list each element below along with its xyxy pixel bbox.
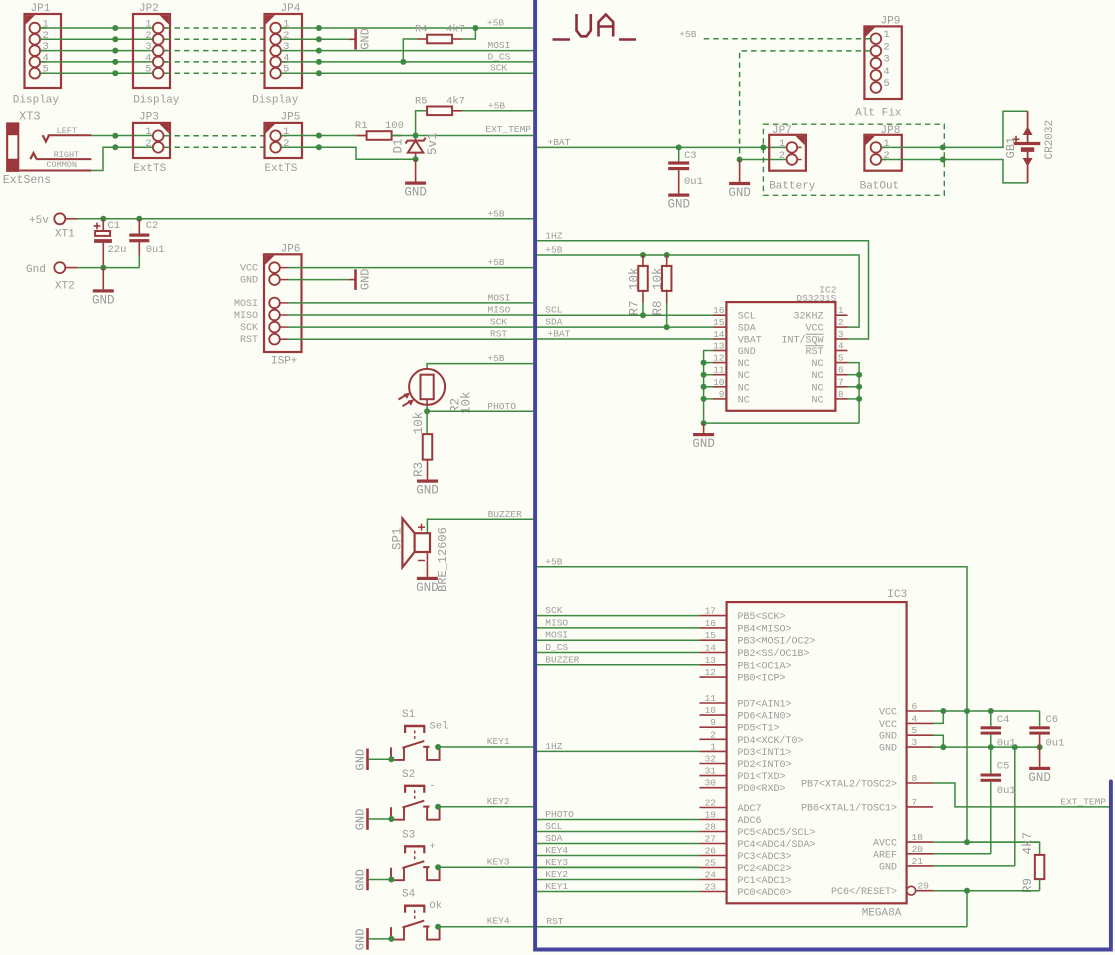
svg-text:2: 2 [883, 41, 889, 53]
svg-text:9: 9 [710, 717, 716, 728]
svg-text:1HZ: 1HZ [545, 741, 562, 752]
svg-text:MOSI: MOSI [545, 630, 568, 641]
svg-text:IC3: IC3 [887, 589, 907, 601]
wire net PHOTO (to bus) [427, 410, 533, 412]
wire XT3 COMMON to JP3 pin2 [91, 147, 152, 170]
svg-text:2: 2 [779, 150, 785, 162]
svg-text:10: 10 [705, 705, 717, 716]
wire XT3 LEFT to JP3 pin1 [91, 135, 152, 137]
dashed wire net +5B to JP9 pin1 [704, 38, 871, 40]
svg-text:GND: GND [359, 28, 373, 50]
svg-text:4: 4 [838, 341, 844, 352]
svg-text:ExtTS: ExtTS [264, 163, 297, 175]
svg-text:23: 23 [705, 882, 717, 893]
wire net RST (JP6 to bus) [288, 338, 533, 340]
svg-text:18: 18 [912, 832, 924, 843]
svg-text:Gnd: Gnd [26, 264, 46, 276]
junction dot R4 bottom at D_CS [400, 59, 406, 65]
wire net +5B (JP6 VCC to bus) [288, 267, 533, 269]
svg-text:D_CS: D_CS [545, 642, 568, 653]
svg-text:PHOTO: PHOTO [487, 401, 516, 412]
svg-text:4k7: 4k7 [1021, 832, 1035, 855]
connector JP6 (ISP+) [234, 244, 302, 368]
svg-text:GND: GND [416, 484, 439, 498]
wire IC2 left NC/GND pins to ground rail [701, 351, 713, 424]
wire net SDA (bus to IC2 pin15) [537, 326, 713, 328]
wire net SCL (bus to IC2 pin16) [537, 314, 713, 316]
svg-text:+5B: +5B [488, 100, 505, 111]
zener diode D1 5v1 [392, 132, 441, 159]
junction dot S2 [435, 804, 441, 810]
svg-text:GND: GND [359, 268, 373, 290]
ground below C6 [1028, 767, 1051, 785]
svg-text:EXT_TEMP: EXT_TEMP [485, 124, 531, 135]
svg-text:28: 28 [705, 822, 717, 833]
svg-text:21: 21 [912, 856, 924, 867]
svg-text:4k7: 4k7 [446, 24, 465, 36]
svg-text:10: 10 [713, 377, 725, 388]
svg-text:PD7<AIN1>: PD7<AIN1> [738, 700, 792, 711]
svg-text:+5B: +5B [545, 556, 562, 567]
ground below XT2 wire [92, 268, 115, 308]
svg-text:RST: RST [490, 329, 507, 340]
svg-text:+5B: +5B [487, 18, 504, 29]
wire JP8 pin2 to battery - [881, 160, 1027, 183]
junction dot [737, 157, 743, 163]
svg-text:32: 32 [705, 754, 717, 765]
svg-text:R7: R7 [628, 300, 642, 315]
svg-text:100: 100 [385, 120, 404, 132]
svg-text:ISP+: ISP+ [271, 356, 297, 368]
svg-text:0u1: 0u1 [146, 244, 165, 256]
svg-text:BUZZER: BUZZER [545, 654, 580, 665]
svg-text:Ok: Ok [429, 900, 442, 912]
svg-text:Display: Display [133, 95, 180, 107]
svg-text:MOSI: MOSI [488, 40, 511, 51]
capacitor C2 0u1 [129, 219, 164, 268]
svg-text:SCK: SCK [545, 605, 562, 616]
resistor R1 100 [355, 120, 404, 140]
wire net MISO (JP6 to bus) [288, 314, 533, 316]
svg-text:GND: GND [879, 744, 897, 755]
svg-text:KEY2: KEY2 [487, 796, 510, 807]
svg-text:3: 3 [912, 737, 918, 748]
svg-text:0u1: 0u1 [1046, 738, 1065, 750]
svg-text:PB3<MOSI/OC2>: PB3<MOSI/OC2> [738, 636, 816, 648]
junction dot D1 bottom [413, 156, 419, 162]
wire net 1HZ (bus to IC2 pin3 loop) [537, 241, 869, 339]
wire JP4 pin2 to GND [281, 38, 349, 40]
svg-text:KEY3: KEY3 [545, 857, 568, 868]
svg-text:JP3: JP3 [139, 112, 159, 124]
svg-text:PHOTO: PHOTO [545, 809, 574, 820]
svg-text:LEFT: LEFT [57, 126, 77, 136]
svg-text:+5B: +5B [545, 245, 562, 256]
wire net EXT_TEMP (R1 to bus) [392, 135, 534, 137]
svg-text:JP5: JP5 [281, 112, 301, 124]
svg-text:2: 2 [145, 30, 151, 42]
svg-text:0u1: 0u1 [684, 176, 703, 188]
svg-text:RST: RST [805, 347, 823, 358]
svg-text:ExtTS: ExtTS [133, 163, 166, 175]
junction dot D1 top [413, 133, 419, 139]
svg-text:MISO: MISO [234, 311, 258, 322]
svg-text:PB6<XTAL1/TOSC1>: PB6<XTAL1/TOSC1> [801, 802, 897, 814]
svg-text:22u: 22u [108, 244, 127, 256]
svg-text:DS3231S: DS3231S [796, 293, 836, 304]
svg-text:BUZZER: BUZZER [488, 509, 523, 520]
resistor R7 10k [628, 255, 648, 316]
svg-text:XT1: XT1 [55, 229, 75, 241]
junction dot R8 bottom [664, 324, 670, 330]
svg-text:+: + [429, 841, 435, 853]
wire JP7 pin2 to ground [740, 159, 787, 161]
svg-text:1: 1 [779, 138, 785, 150]
svg-text:11: 11 [705, 693, 717, 704]
connector JP7 (Battery, mirrored) [769, 125, 816, 193]
svg-text:PC4<ADC4/SDA>: PC4<ADC4/SDA> [738, 839, 816, 851]
svg-text:R5: R5 [415, 95, 428, 107]
wire net +5B (R5 to bus) [462, 110, 533, 112]
switch S3 (+) [391, 829, 440, 880]
svg-text:6: 6 [838, 365, 844, 376]
svg-text:15: 15 [713, 317, 725, 328]
wire net RST (bus to reset riser) [537, 891, 967, 927]
ground below IC2 [692, 423, 715, 451]
inversion bubble pin29 [907, 886, 916, 895]
junction dot [940, 144, 946, 150]
dashed box around battery connectors [763, 124, 944, 195]
svg-text:S3: S3 [402, 829, 415, 841]
svg-text:GND: GND [1028, 771, 1051, 785]
svg-text:+BAT: +BAT [548, 137, 571, 148]
svg-text:15: 15 [705, 630, 717, 641]
svg-text:RST: RST [546, 916, 563, 927]
junction dot [964, 888, 970, 894]
connector JP8 (BatOut) [860, 125, 902, 193]
wire net D_CS (JP4 pin4 to bus) [281, 61, 533, 63]
svg-text:PC0<ADC0>: PC0<ADC0> [738, 888, 792, 899]
svg-text:+5B: +5B [679, 29, 696, 40]
svg-text:NC: NC [738, 395, 750, 406]
svg-text:27: 27 [705, 834, 716, 845]
svg-text:5: 5 [838, 353, 844, 364]
resistor R5 4k7 [415, 95, 465, 135]
svg-text:GND: GND [354, 809, 368, 831]
svg-text:D1: D1 [392, 138, 406, 153]
connector JP2 (Display, mirrored) [133, 3, 180, 107]
svg-text:SCK: SCK [490, 317, 507, 328]
svg-text:2: 2 [838, 317, 844, 328]
svg-text:29: 29 [918, 881, 930, 892]
junction dot [424, 408, 430, 414]
svg-text:S1: S1 [402, 709, 416, 721]
junction dot S3 [435, 864, 441, 870]
svg-text:7: 7 [838, 377, 844, 388]
dashed wire JP9 pin2 to ground junction [740, 51, 871, 160]
IC3 left pins group PB [699, 606, 815, 685]
wire JP5 pin2 to D1 bottom [281, 147, 416, 159]
wire net 1HZ (bus to IC3 pin1) [537, 750, 699, 752]
op-amp/IC U: IC2 DS3231S RTC [713, 285, 848, 411]
junction dot [940, 157, 946, 163]
svg-text:10k: 10k [628, 267, 642, 290]
svg-text:XT3: XT3 [19, 110, 41, 124]
svg-text:2: 2 [710, 729, 716, 740]
svg-text:NC: NC [811, 395, 823, 406]
resistor R9 4k7 [967, 832, 1044, 893]
svg-text:SP1: SP1 [391, 527, 405, 550]
wire net EXT_TEMP (IC3 pin8 to right bus) [933, 783, 1109, 807]
svg-text:+5B: +5B [487, 353, 504, 364]
svg-text:GND: GND [879, 732, 897, 743]
svg-text:NC: NC [738, 371, 750, 382]
ground below C3 [667, 170, 690, 211]
wire VCC pins rail [933, 708, 1040, 723]
svg-text:C6: C6 [1046, 714, 1059, 726]
svg-text:4: 4 [145, 52, 151, 64]
svg-text:17: 17 [705, 606, 716, 617]
svg-text:JP6: JP6 [281, 244, 301, 256]
svg-text:1HZ: 1HZ [545, 230, 562, 241]
junction dot [316, 133, 322, 139]
svg-text:VCC: VCC [879, 708, 897, 719]
svg-text:PB0<ICP>: PB0<ICP> [738, 674, 786, 685]
svg-text:GND: GND [667, 198, 690, 212]
svg-text:22: 22 [705, 798, 717, 809]
svg-text:GND: GND [354, 929, 368, 951]
svg-text:JP8: JP8 [881, 125, 901, 137]
junction dot [701, 420, 707, 426]
wires SPI nets bus to IC3 [537, 605, 699, 665]
svg-text:CR2032: CR2032 [1044, 120, 1056, 160]
svg-text:GND: GND [92, 293, 115, 307]
svg-text:Display: Display [252, 95, 299, 107]
svg-text:KEY4: KEY4 [545, 845, 568, 856]
svg-text:30: 30 [705, 778, 717, 789]
connector JP4 (Display) [252, 3, 302, 107]
svg-text:9: 9 [719, 389, 725, 400]
svg-text:0u1: 0u1 [997, 738, 1016, 750]
junction dots JP1-JP2 column [112, 25, 118, 76]
IC3 left pins group PD [699, 693, 803, 795]
svg-text:XT2: XT2 [55, 281, 75, 293]
svg-text:JP1: JP1 [31, 3, 51, 15]
wire JP6 GND pin [288, 279, 349, 281]
svg-text:GND: GND [404, 186, 427, 200]
wire ground rail below IC2 [704, 422, 860, 424]
svg-text:24: 24 [705, 870, 717, 881]
svg-text:C3: C3 [684, 150, 697, 162]
svg-text:10k: 10k [651, 267, 665, 290]
svg-text:6: 6 [912, 701, 918, 712]
svg-text:NC: NC [811, 383, 823, 394]
svg-text:INT/SQW: INT/SQW [781, 335, 823, 347]
svg-text:8: 8 [912, 773, 918, 784]
svg-text:GND: GND [416, 581, 439, 595]
svg-text:KEY1: KEY1 [545, 881, 568, 892]
svg-text:Sel: Sel [429, 721, 448, 733]
svg-text:PD0<RXD>: PD0<RXD> [738, 784, 786, 795]
ground below R3 [416, 480, 439, 498]
wire net +5B (R2 top to bus) [427, 364, 533, 369]
svg-text:GND: GND [738, 347, 756, 358]
resistor R4 4k7 [403, 24, 475, 62]
microcontroller IC3 MEGA8A [727, 589, 908, 920]
ground (rotated) near JP6 [349, 268, 373, 290]
svg-text:PC5<ADC5/SCL>: PC5<ADC5/SCL> [738, 827, 816, 839]
pad XT1 (+5v) [29, 213, 78, 240]
svg-text:PB5<SCK>: PB5<SCK> [738, 612, 786, 623]
svg-text:5: 5 [145, 64, 151, 76]
svg-text:PC3<ADC3>: PC3<ADC3> [738, 852, 792, 863]
svg-text:EXT_TEMP: EXT_TEMP [1060, 796, 1106, 807]
svg-text:JP4: JP4 [281, 3, 301, 15]
audio jack XT3 (ExtSens) [3, 110, 92, 188]
svg-text:KEY3: KEY3 [487, 856, 510, 867]
junction dot [316, 144, 322, 150]
svg-text:+5v: +5v [29, 215, 49, 227]
svg-text:5: 5 [912, 725, 918, 736]
svg-text:PC6</RESET>: PC6</RESET> [831, 886, 897, 898]
svg-text:PB2<SS/OC1B>: PB2<SS/OC1B> [738, 648, 810, 660]
svg-text:4: 4 [912, 713, 918, 724]
svg-text:R8: R8 [651, 300, 665, 315]
svg-text:11: 11 [713, 365, 725, 376]
wire net KEY3 from S3 [438, 866, 699, 868]
svg-text:SCK: SCK [240, 323, 258, 334]
wire net +5B (bus to IC2 pin2 loop) [537, 255, 859, 327]
svg-text:31: 31 [705, 766, 717, 777]
svg-text:5: 5 [883, 78, 889, 90]
svg-text:KEY4: KEY4 [487, 916, 510, 927]
overline on RST [806, 345, 824, 347]
svg-text:10k: 10k [412, 412, 426, 435]
svg-text:2: 2 [145, 138, 151, 150]
ground below SP1 [416, 577, 439, 595]
junction dot S4 [435, 924, 441, 930]
junction dots C1 C2 top [100, 216, 106, 222]
svg-text:ExtSens: ExtSens [3, 174, 51, 187]
svg-text:PB4<MISO>: PB4<MISO> [738, 624, 792, 635]
svg-text:14: 14 [705, 643, 717, 654]
svg-text:R3: R3 [412, 462, 426, 477]
svg-text:8: 8 [838, 389, 844, 400]
svg-text:20: 20 [912, 844, 924, 855]
svg-text:AVCC: AVCC [873, 839, 897, 850]
svg-text:PC1<ADC1>: PC1<ADC1> [738, 876, 792, 887]
wire net +BAT (bus to IC2 pin14) [537, 338, 713, 340]
svg-text:25: 25 [705, 858, 717, 869]
svg-text:GND: GND [692, 437, 715, 451]
svg-text:S2: S2 [402, 769, 415, 781]
svg-text:PD1<TXD>: PD1<TXD> [738, 772, 786, 783]
svg-text:NC: NC [738, 383, 750, 394]
svg-text:PD2<INT0>: PD2<INT0> [738, 760, 792, 771]
pad XT2 (Gnd) [26, 262, 78, 292]
ground at S4 [354, 928, 395, 950]
svg-text:MOSI: MOSI [234, 299, 258, 310]
svg-text:7: 7 [912, 797, 918, 808]
svg-text:5v1: 5v1 [426, 132, 440, 155]
svg-text:3: 3 [838, 329, 844, 340]
junction dots after JP4 [316, 25, 322, 76]
connector JP1 (Display) [13, 3, 61, 107]
svg-text:GND: GND [728, 186, 751, 200]
svg-text:Battery: Battery [769, 180, 816, 192]
battery GB1 CR2032 [1004, 111, 1056, 183]
capacitor C6 0u1 [1029, 711, 1064, 767]
bus _UA_ [535, 1, 1111, 950]
svg-text:3: 3 [145, 41, 151, 53]
svg-text:VCC: VCC [805, 324, 823, 335]
wire net +5B (JP4 pin1 to bus) [281, 27, 533, 29]
svg-text:SDA: SDA [545, 833, 562, 844]
resistor R8 10k [651, 255, 671, 327]
capacitor C5 0u1 [981, 747, 1016, 854]
svg-text:13: 13 [713, 341, 725, 352]
svg-text:PB7<XTAL2/TOSC2>: PB7<XTAL2/TOSC2> [801, 779, 897, 791]
wire GND21 row [933, 747, 1015, 866]
svg-text:BatOut: BatOut [860, 180, 900, 192]
svg-text:26: 26 [705, 846, 717, 857]
title _UA_ [553, 14, 637, 40]
overline on SQW [806, 333, 824, 335]
wire net MOSI (JP4 pin3 to bus) [281, 50, 533, 52]
switch S1 (Sel) [391, 709, 448, 760]
svg-text:C4: C4 [997, 714, 1010, 726]
ground at S1 [354, 749, 395, 771]
svg-text:SCL: SCL [545, 305, 562, 316]
svg-text:JP9: JP9 [881, 16, 901, 28]
wire JP8 pin1 to battery + [881, 111, 1027, 147]
ground below D1 [404, 159, 427, 199]
svg-text:GND: GND [879, 862, 897, 873]
svg-text:JP7: JP7 [772, 125, 792, 137]
svg-text:SCL: SCL [738, 312, 756, 323]
wire GND pins rail [933, 735, 1043, 750]
capacitor C1 22u (polarized) [94, 219, 127, 268]
svg-text:C5: C5 [997, 761, 1010, 773]
wire R2 bottom to PHOTO [426, 399, 428, 406]
svg-text:PC2<ADC2>: PC2<ADC2> [738, 864, 792, 875]
svg-text:RIGHT: RIGHT [54, 150, 80, 160]
svg-text:NC: NC [811, 359, 823, 370]
wires analog nets bus to IC3 [537, 809, 699, 892]
wire net SCK (JP4 pin5 to bus) [281, 72, 533, 74]
svg-text:GND: GND [354, 749, 368, 771]
dashed wires JP2 to JP4 (5 nets) [165, 28, 270, 73]
svg-text:+5B: +5B [488, 257, 505, 268]
ground (rotated) near JP4 [349, 28, 373, 50]
wire net +BAT (bus to JP7 pin1) [537, 146, 787, 148]
svg-text:14: 14 [713, 329, 725, 340]
svg-text:JP2: JP2 [139, 3, 159, 15]
svg-text:VBAT: VBAT [738, 336, 762, 347]
svg-text:R1: R1 [355, 120, 368, 132]
svg-text:+5B: +5B [488, 208, 505, 219]
wire net AVCC row [933, 841, 1040, 843]
dashed wires JP3 to JP5 [165, 135, 270, 137]
junction dots R7 R8 top [640, 252, 646, 258]
wire IC2 right NC pins to ground rail [848, 363, 863, 424]
svg-text:3: 3 [883, 54, 889, 66]
wire net KEY4 from S4 [438, 926, 537, 928]
svg-text:VCC: VCC [879, 720, 897, 731]
svg-text:VCC: VCC [240, 264, 258, 275]
svg-text:1: 1 [838, 305, 844, 316]
wire net MOSI (JP6 to bus) [288, 302, 533, 304]
